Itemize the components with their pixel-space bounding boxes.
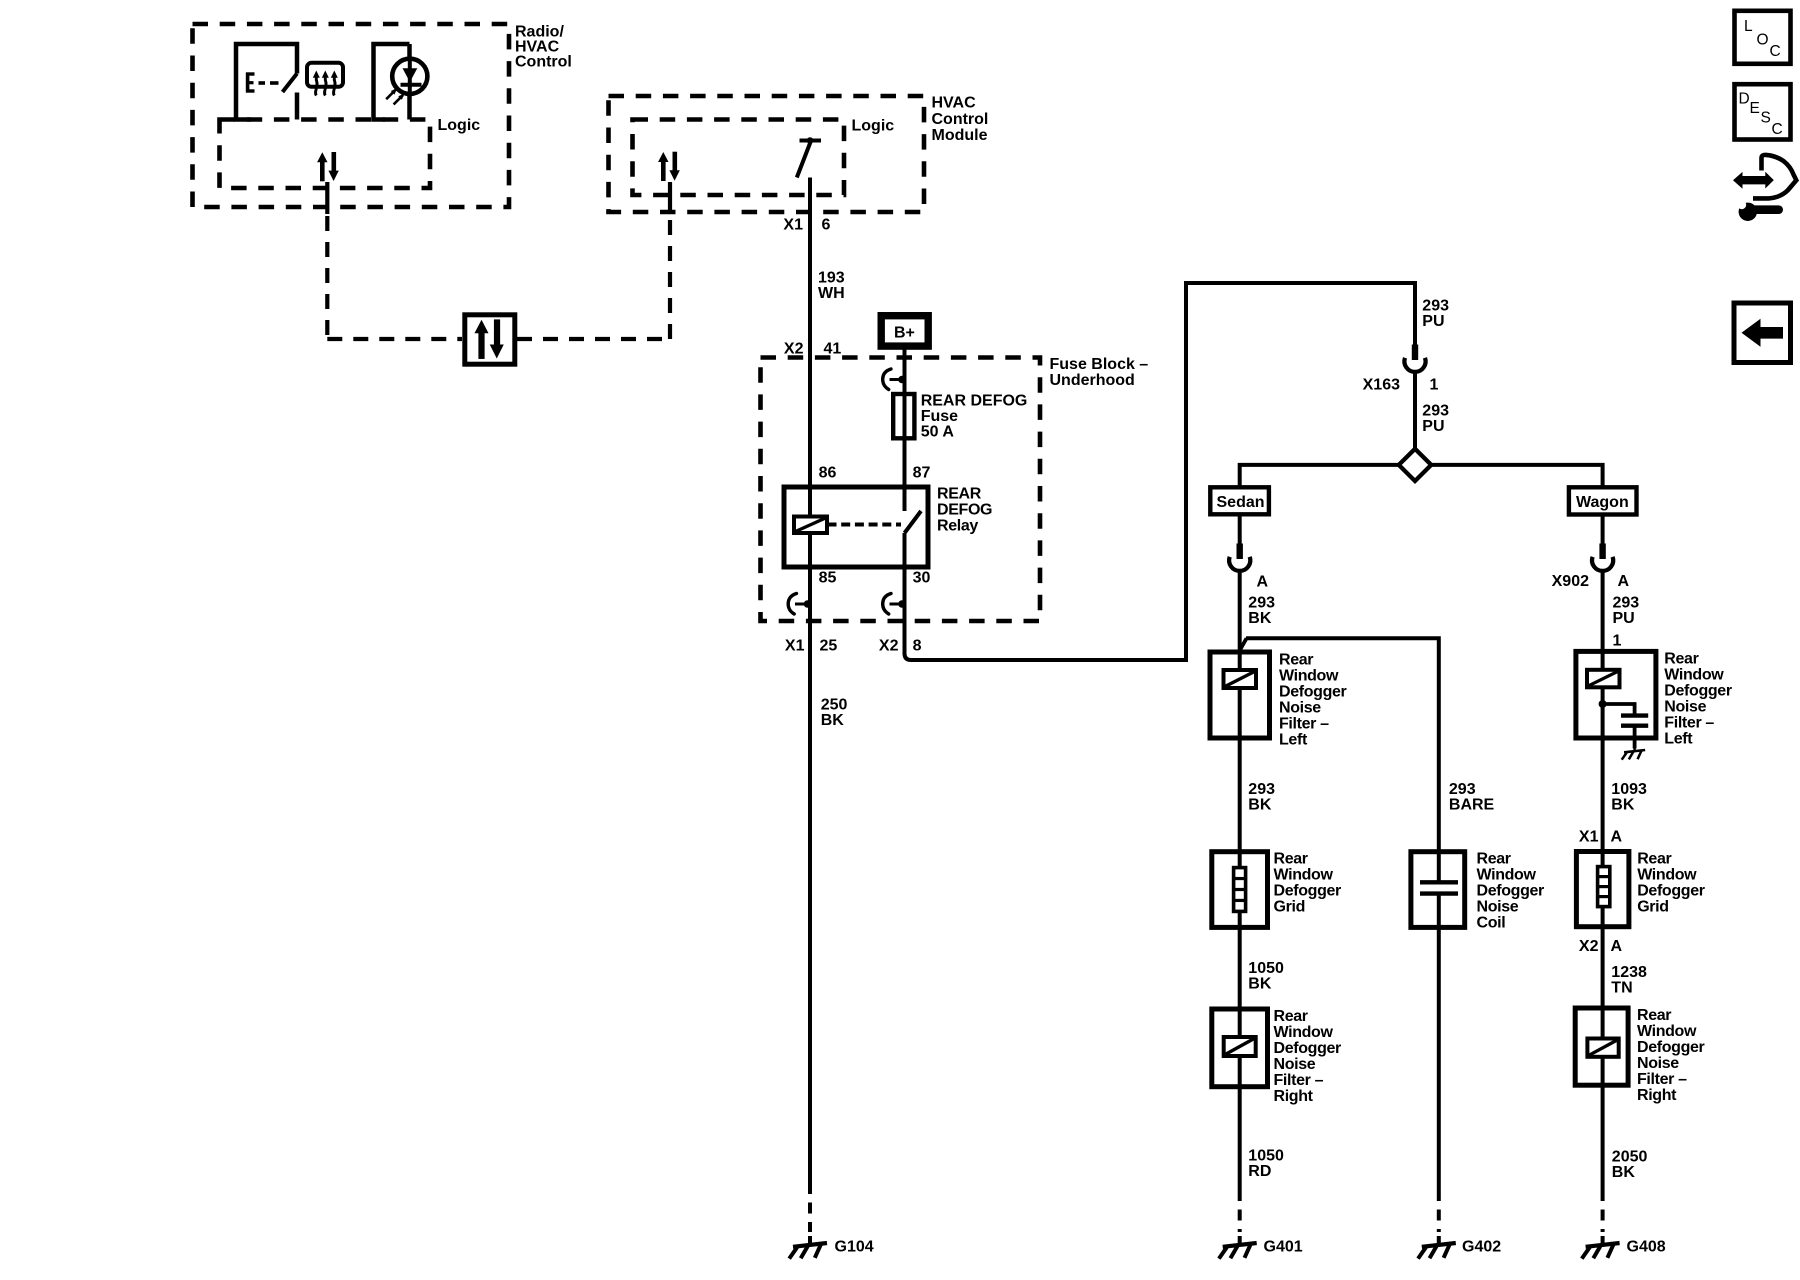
svg-text:2050: 2050 — [1612, 1149, 1648, 1166]
svg-text:D: D — [1739, 91, 1750, 108]
svg-text:X2: X2 — [784, 341, 804, 358]
svg-text:X1: X1 — [785, 638, 805, 655]
svg-text:Noise: Noise — [1637, 1055, 1679, 1072]
svg-text:Grid: Grid — [1637, 899, 1669, 916]
svg-text:Rear: Rear — [1274, 851, 1308, 868]
svg-text:Logic: Logic — [852, 117, 895, 134]
svg-text:A: A — [1618, 573, 1630, 590]
svg-text:X2: X2 — [1579, 938, 1599, 955]
svg-text:WH: WH — [818, 285, 845, 302]
svg-text:Window: Window — [1274, 867, 1334, 884]
svg-text:Rear: Rear — [1477, 851, 1511, 868]
svg-text:25: 25 — [820, 638, 838, 655]
svg-text:C: C — [1772, 121, 1783, 138]
svg-text:PU: PU — [1613, 610, 1635, 627]
svg-text:6: 6 — [822, 217, 831, 234]
svg-text:Wagon: Wagon — [1576, 494, 1629, 511]
svg-text:293: 293 — [1449, 781, 1476, 798]
svg-text:REAR DEFOG: REAR DEFOG — [921, 393, 1028, 410]
svg-text:X902: X902 — [1552, 573, 1589, 590]
svg-text:Window: Window — [1477, 867, 1537, 884]
svg-text:41: 41 — [824, 341, 842, 358]
svg-text:Rear: Rear — [1274, 1008, 1308, 1025]
svg-text:Noise: Noise — [1664, 699, 1706, 716]
svg-text:PU: PU — [1422, 313, 1444, 330]
svg-text:BK: BK — [1612, 1164, 1636, 1181]
svg-text:1093: 1093 — [1611, 781, 1647, 798]
svg-text:250: 250 — [821, 697, 848, 714]
svg-text:293: 293 — [1422, 298, 1449, 315]
svg-text:BK: BK — [1611, 797, 1635, 814]
svg-text:Grid: Grid — [1274, 899, 1306, 916]
svg-text:B+: B+ — [894, 325, 915, 342]
svg-text:293: 293 — [1422, 403, 1449, 420]
svg-text:A: A — [1611, 938, 1623, 955]
svg-text:Rear: Rear — [1637, 1007, 1671, 1024]
svg-text:X163: X163 — [1363, 377, 1400, 394]
svg-text:Control: Control — [932, 111, 989, 128]
svg-text:Filter –: Filter – — [1664, 715, 1714, 732]
svg-text:X1: X1 — [1579, 829, 1599, 846]
svg-text:85: 85 — [819, 570, 837, 587]
svg-text:293: 293 — [1248, 781, 1275, 798]
svg-text:A: A — [1611, 829, 1623, 846]
svg-text:Logic: Logic — [438, 117, 481, 134]
svg-text:1: 1 — [1430, 377, 1439, 394]
svg-text:30: 30 — [913, 570, 931, 587]
svg-text:Rear: Rear — [1279, 652, 1313, 669]
svg-text:Coil: Coil — [1477, 915, 1506, 932]
svg-text:Sedan: Sedan — [1217, 494, 1265, 511]
svg-text:A: A — [1257, 574, 1269, 591]
svg-text:Right: Right — [1274, 1088, 1314, 1105]
svg-text:Noise: Noise — [1477, 899, 1519, 916]
svg-text:E: E — [1750, 100, 1760, 117]
svg-text:HVAC: HVAC — [932, 95, 977, 112]
svg-text:Defogger: Defogger — [1274, 1040, 1342, 1057]
svg-text:RD: RD — [1248, 1163, 1271, 1180]
svg-text:86: 86 — [819, 465, 837, 482]
svg-text:G104: G104 — [835, 1239, 874, 1256]
svg-text:293: 293 — [1613, 595, 1640, 612]
svg-text:O: O — [1757, 31, 1769, 48]
svg-text:REAR: REAR — [937, 486, 982, 503]
svg-text:Noise: Noise — [1274, 1056, 1316, 1073]
svg-text:X1: X1 — [783, 217, 803, 234]
svg-text:X2: X2 — [879, 638, 899, 655]
svg-text:G402: G402 — [1462, 1239, 1501, 1256]
svg-text:1050: 1050 — [1248, 1148, 1284, 1165]
svg-text:Left: Left — [1279, 732, 1308, 749]
svg-text:Fuse: Fuse — [921, 408, 958, 425]
svg-text:Filter –: Filter – — [1637, 1071, 1687, 1088]
svg-text:DEFOG: DEFOG — [937, 502, 992, 519]
svg-text:G401: G401 — [1264, 1239, 1303, 1256]
svg-text:Window: Window — [1279, 668, 1339, 685]
svg-text:Defogger: Defogger — [1637, 1039, 1705, 1056]
svg-text:1: 1 — [1613, 633, 1622, 650]
svg-text:Right: Right — [1637, 1087, 1677, 1104]
svg-text:Defogger: Defogger — [1637, 883, 1705, 900]
svg-text:50 A: 50 A — [921, 424, 955, 441]
svg-text:Window: Window — [1637, 1023, 1697, 1040]
svg-text:1238: 1238 — [1611, 964, 1647, 981]
svg-text:Filter –: Filter – — [1279, 716, 1329, 733]
svg-text:293: 293 — [1248, 595, 1275, 612]
svg-text:BK: BK — [821, 712, 845, 729]
svg-text:1050: 1050 — [1248, 960, 1284, 977]
svg-text:Rear: Rear — [1637, 851, 1671, 868]
svg-text:Filter –: Filter – — [1274, 1072, 1324, 1089]
svg-text:BK: BK — [1248, 610, 1272, 627]
svg-text:8: 8 — [913, 638, 922, 655]
svg-text:Defogger: Defogger — [1477, 883, 1545, 900]
svg-text:Fuse Block –: Fuse Block – — [1050, 356, 1149, 373]
svg-text:Noise: Noise — [1279, 700, 1321, 717]
svg-text:G408: G408 — [1627, 1239, 1666, 1256]
svg-text:PU: PU — [1422, 418, 1444, 435]
svg-text:Window: Window — [1274, 1024, 1334, 1041]
svg-text:BK: BK — [1248, 976, 1272, 993]
svg-text:Rear: Rear — [1664, 651, 1698, 668]
svg-text:Window: Window — [1664, 667, 1724, 684]
svg-text:C: C — [1770, 43, 1781, 60]
svg-text:193: 193 — [818, 270, 845, 287]
svg-text:Module: Module — [932, 127, 988, 144]
svg-text:Window: Window — [1637, 867, 1697, 884]
svg-text:BK: BK — [1248, 797, 1272, 814]
svg-text:Defogger: Defogger — [1664, 683, 1732, 700]
svg-text:Control: Control — [515, 54, 572, 71]
svg-text:BARE: BARE — [1449, 797, 1495, 814]
svg-text:Relay: Relay — [937, 518, 978, 535]
svg-text:Underhood: Underhood — [1050, 372, 1135, 389]
svg-text:Defogger: Defogger — [1274, 883, 1342, 900]
svg-text:S: S — [1761, 110, 1771, 127]
svg-text:L: L — [1744, 18, 1753, 35]
svg-text:Defogger: Defogger — [1279, 684, 1347, 701]
svg-text:TN: TN — [1611, 980, 1632, 997]
svg-text:Left: Left — [1664, 731, 1693, 748]
svg-text:87: 87 — [913, 465, 931, 482]
